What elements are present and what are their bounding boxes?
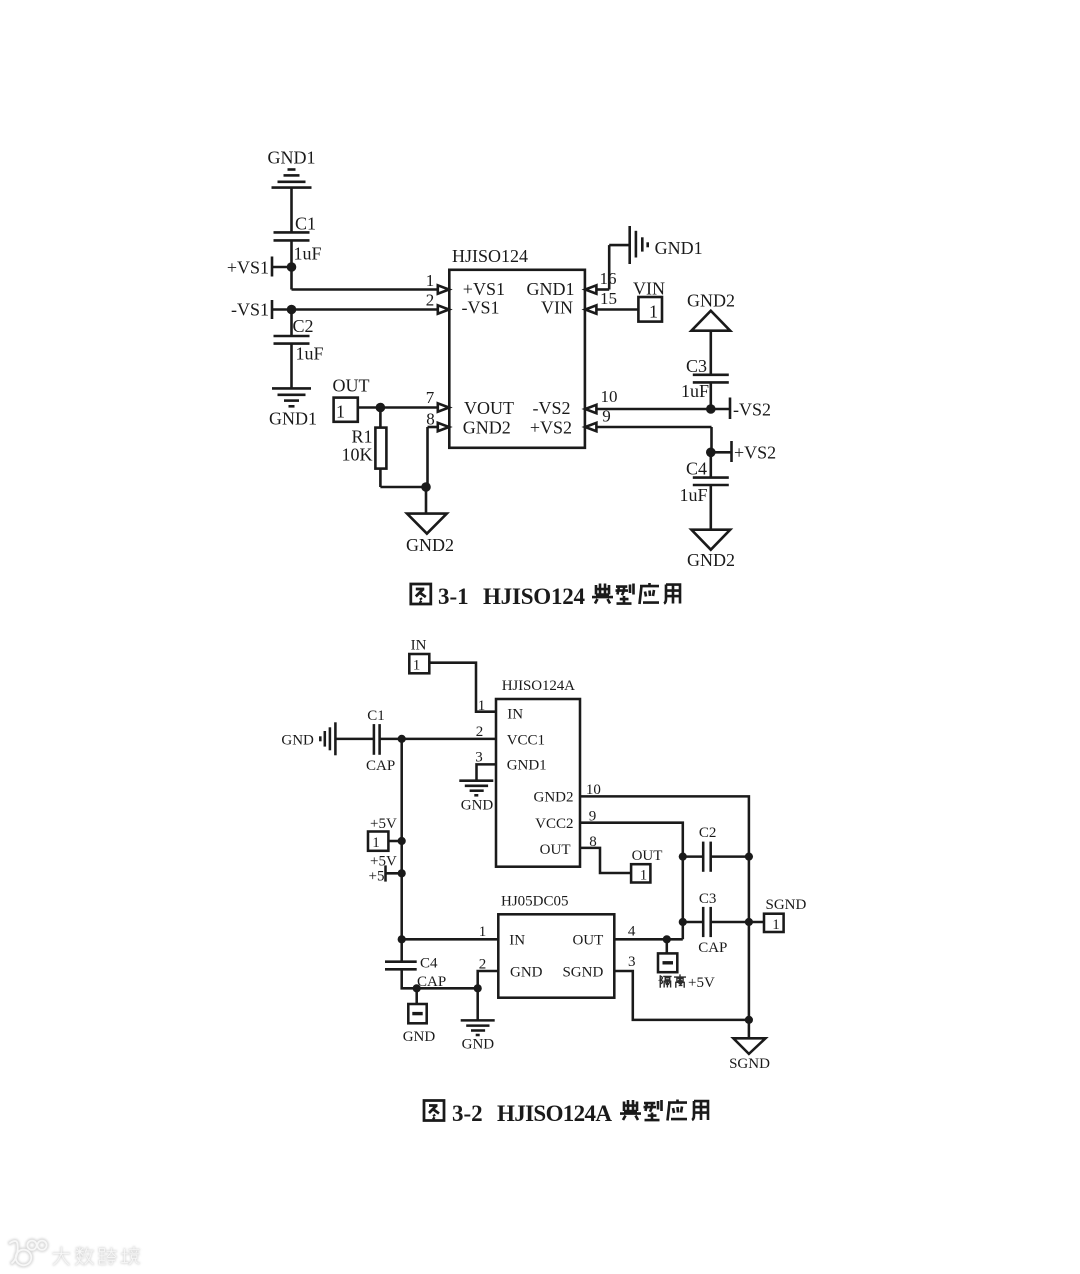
port GND box (dash) xyxy=(408,1004,426,1023)
wire to GND2 xyxy=(425,487,428,514)
svg-text:3: 3 xyxy=(475,750,483,766)
wire +VS2 node to C4 xyxy=(709,452,712,477)
svg-text:HJISO124: HJISO124 xyxy=(483,584,586,609)
svg-text:GND: GND xyxy=(462,1037,495,1053)
wire pin8 xyxy=(428,426,438,429)
svg-text:8: 8 xyxy=(426,410,435,429)
svg-text:1uF: 1uF xyxy=(294,244,322,264)
vertical C2 to C3 xyxy=(682,857,685,940)
svg-text:3: 3 xyxy=(628,954,636,970)
ground GND under C4 wire xyxy=(461,1020,495,1035)
capacitor C1 fig2 xyxy=(374,724,380,755)
svg-text:2: 2 xyxy=(426,291,435,310)
svg-text:IN: IN xyxy=(411,638,427,654)
pin 1 arrow xyxy=(438,285,449,293)
ground GND1 bottom-left xyxy=(272,388,311,406)
svg-text:4: 4 xyxy=(628,924,636,940)
svg-text:C1: C1 xyxy=(367,708,385,724)
wire pin1 xyxy=(292,288,438,291)
wire C3 row xyxy=(683,921,703,924)
port SGND box xyxy=(764,914,784,932)
junction pin4/iso5V xyxy=(663,935,671,943)
svg-text:1uF: 1uF xyxy=(680,485,708,505)
pin 15 arrow xyxy=(585,305,596,313)
watermark text 大数跨境 xyxy=(53,1247,138,1264)
node -VS2 tick xyxy=(729,398,732,420)
node +VS1 tick xyxy=(271,257,274,277)
svg-text:1: 1 xyxy=(372,835,380,851)
svg-text:HJISO124A: HJISO124A xyxy=(502,678,575,694)
svg-text:IN: IN xyxy=(509,933,525,949)
ground GND1 top xyxy=(272,170,312,188)
pin 9 arrow xyxy=(585,423,596,431)
svg-text:1: 1 xyxy=(478,698,486,714)
svg-text:1: 1 xyxy=(336,402,345,422)
svg-text:-VS1: -VS1 xyxy=(231,300,269,320)
wire pin3 IC3 to SGND rail xyxy=(614,971,749,1020)
node +5 tick xyxy=(384,865,387,881)
svg-text:+5V: +5V xyxy=(370,816,397,832)
junction rail/pin1 xyxy=(398,935,406,943)
caption figure 3-1 xyxy=(411,583,680,609)
svg-text:GND2: GND2 xyxy=(534,790,574,806)
svg-text:1: 1 xyxy=(640,868,648,884)
svg-text:+VS1: +VS1 xyxy=(227,258,269,278)
svg-text:9: 9 xyxy=(602,407,611,426)
svg-text:+VS1: +VS1 xyxy=(463,279,505,299)
svg-text:1uF: 1uF xyxy=(681,381,709,401)
junction -VS2 xyxy=(706,404,716,414)
svg-text:-VS2: -VS2 xyxy=(733,400,771,420)
svg-text:HJISO124: HJISO124 xyxy=(452,246,528,266)
svg-text:GND1: GND1 xyxy=(655,238,703,258)
IC U1 HJISO124 box xyxy=(449,270,585,448)
pin 8 arrow xyxy=(438,423,449,431)
svg-text:VIN: VIN xyxy=(633,278,665,298)
svg-text:+5: +5 xyxy=(369,869,385,885)
svg-text:VCC1: VCC1 xyxy=(507,733,545,749)
pin 16 arrow xyxy=(585,285,596,293)
wire pin4 xyxy=(614,938,683,941)
ground SGND triangle xyxy=(733,1038,765,1054)
svg-text:7: 7 xyxy=(426,388,435,407)
junction pin2 corner xyxy=(474,984,482,992)
svg-text:9: 9 xyxy=(589,809,597,825)
wire GND2 to C3 xyxy=(709,331,712,375)
ground GND sideways left xyxy=(320,722,335,755)
port OUT box xyxy=(334,398,358,422)
capacitor C3 fig2 xyxy=(703,907,711,937)
svg-text:GND: GND xyxy=(510,965,543,981)
junction C3 left xyxy=(679,918,687,926)
junction SGND rail xyxy=(745,1016,753,1024)
svg-text:R1: R1 xyxy=(351,427,372,447)
svg-text:-VS1: -VS1 xyxy=(462,297,500,317)
svg-text:1: 1 xyxy=(413,658,421,674)
svg-text:GND: GND xyxy=(403,1029,436,1045)
wire C1 to +VS1 node xyxy=(290,240,293,289)
label isolated +5V xyxy=(660,975,715,991)
svg-text:+VS2: +VS2 xyxy=(530,418,572,438)
wire C2 to ground xyxy=(290,344,293,389)
port isolated +5V box (dash) xyxy=(658,953,677,972)
wire pin16 to GND1 xyxy=(596,288,609,291)
svg-text:SGND: SGND xyxy=(729,1056,770,1072)
wire C3 to -VS2 node xyxy=(709,382,712,409)
IC U2 HJISO124A box xyxy=(496,699,580,867)
svg-text:GND1: GND1 xyxy=(268,148,316,168)
svg-text:C4: C4 xyxy=(686,459,707,479)
svg-text:SGND: SGND xyxy=(766,897,807,913)
svg-text:CAP: CAP xyxy=(366,758,395,774)
port OUT box fig2 xyxy=(631,864,650,882)
svg-text:+VS2: +VS2 xyxy=(734,443,776,463)
svg-text:C2: C2 xyxy=(699,825,717,841)
svg-text:-VS2: -VS2 xyxy=(532,398,570,418)
svg-text:2: 2 xyxy=(479,957,487,973)
svg-text:GND: GND xyxy=(461,798,494,814)
resistor R1 xyxy=(379,408,382,428)
junction -VS1 xyxy=(287,305,297,315)
junction +5 xyxy=(398,869,406,877)
capacitor C4 fig2 xyxy=(385,962,417,970)
svg-text:VIN: VIN xyxy=(541,297,573,317)
svg-text:GND1: GND1 xyxy=(527,279,575,299)
junction +VS2 xyxy=(706,448,716,458)
svg-text:C3: C3 xyxy=(686,356,707,376)
svg-text:CAP: CAP xyxy=(417,974,446,990)
svg-text:16: 16 xyxy=(600,269,617,288)
svg-text:OUT: OUT xyxy=(540,842,571,858)
svg-text:2: 2 xyxy=(476,724,484,740)
caption figure 3-2 xyxy=(424,1100,708,1127)
port IN box xyxy=(409,654,429,673)
svg-text:GND: GND xyxy=(281,733,314,749)
svg-text:C2: C2 xyxy=(293,316,314,336)
junction GND port xyxy=(413,984,421,992)
IC U3 HJ05DC05 box xyxy=(498,914,614,997)
wire C1 to pin2 xyxy=(380,738,496,741)
node -VS1 tick xyxy=(271,300,274,319)
junction C2 left xyxy=(679,853,687,861)
junction dots figure 1 xyxy=(287,262,716,492)
svg-text:+5V: +5V xyxy=(370,854,397,870)
svg-text:10K: 10K xyxy=(342,445,373,465)
wire junction to ground xyxy=(476,988,479,1020)
svg-text:1: 1 xyxy=(649,302,658,322)
svg-text:OUT: OUT xyxy=(572,933,603,949)
svg-text:8: 8 xyxy=(589,834,597,850)
watermark logo bottom-left xyxy=(10,1241,139,1266)
node +VS2 tick xyxy=(730,441,733,462)
wire IN to pin1 xyxy=(429,663,496,712)
junction OUT xyxy=(376,403,386,413)
junction +5V xyxy=(398,837,406,845)
pin 7 arrow xyxy=(438,403,449,411)
ground GND2 triangle fig1 bottom xyxy=(407,514,447,534)
port +5V box xyxy=(368,832,388,851)
svg-text:GND1: GND1 xyxy=(269,409,317,429)
ground GND2 triangle bottom-right xyxy=(691,530,730,550)
svg-text:C4: C4 xyxy=(420,956,438,972)
junction R1/pin8 xyxy=(421,482,431,492)
wire pin9 / +VS2 xyxy=(596,426,711,429)
junction dots figure 2 xyxy=(398,735,753,1024)
svg-text:OUT: OUT xyxy=(333,376,370,396)
stub to isolated +5V port xyxy=(666,939,669,953)
wire R1 bottom xyxy=(379,469,382,487)
labels figure 1 xyxy=(227,148,776,571)
wire pin1 row IC3 xyxy=(402,938,499,941)
capacitor C2 xyxy=(290,310,293,337)
svg-text:HJ05DC05: HJ05DC05 xyxy=(501,894,569,910)
svg-text:VCC2: VCC2 xyxy=(535,816,573,832)
capacitor C1 xyxy=(274,232,310,240)
svg-text:C1: C1 xyxy=(295,214,316,234)
ground GND under pin3 xyxy=(459,781,493,796)
labels figure 2 xyxy=(281,638,806,1073)
capacitor C4 xyxy=(693,478,729,485)
svg-text:10: 10 xyxy=(601,387,618,406)
svg-text:+5V: +5V xyxy=(688,975,715,991)
svg-text:3-2: 3-2 xyxy=(452,1101,483,1126)
wire pin8 to OUT xyxy=(580,848,631,873)
wire pin15 to VIN xyxy=(596,308,638,311)
junction +VS1 xyxy=(287,262,297,272)
svg-text:CAP: CAP xyxy=(698,940,727,956)
wire C4 bottom to pin2 vertical xyxy=(402,969,478,988)
junction C3 right xyxy=(745,918,753,926)
wire pin9 xyxy=(580,823,683,857)
pin 2 arrow xyxy=(438,305,449,313)
svg-text:GND2: GND2 xyxy=(463,418,511,438)
wire +5V box to rail xyxy=(388,840,401,843)
ground GND2 triangle top-right (up) xyxy=(691,311,730,331)
svg-text:1: 1 xyxy=(426,271,435,290)
svg-text:3-1: 3-1 xyxy=(438,584,469,609)
svg-text:GND2: GND2 xyxy=(687,550,735,570)
svg-text:10: 10 xyxy=(586,782,601,798)
svg-text:GND2: GND2 xyxy=(406,535,454,555)
wire pin3 to GND xyxy=(477,764,497,780)
pin 10 arrow xyxy=(585,405,596,413)
svg-text:1uF: 1uF xyxy=(296,344,324,364)
wire OUT to pin7 xyxy=(358,406,438,409)
svg-text:1: 1 xyxy=(772,917,780,933)
wire pin10 xyxy=(580,796,749,1038)
junction C2 right xyxy=(745,853,753,861)
wire GND to C1 xyxy=(335,738,374,741)
wire C4 to GND2 xyxy=(709,485,712,530)
stub to GND port box xyxy=(415,988,418,1004)
capacitor C2 fig2 xyxy=(703,842,711,872)
left rail fig2 xyxy=(400,739,403,962)
wire GND1 to C1 xyxy=(290,188,293,233)
capacitor C3 xyxy=(693,375,729,383)
svg-text:VOUT: VOUT xyxy=(464,398,514,418)
svg-text:15: 15 xyxy=(600,289,617,308)
port VIN box xyxy=(638,297,662,322)
svg-text:HJISO124A: HJISO124A xyxy=(497,1101,612,1126)
svg-text:GND2: GND2 xyxy=(687,291,735,311)
svg-text:OUT: OUT xyxy=(632,848,663,864)
wire C2 row xyxy=(683,855,703,858)
svg-text:1: 1 xyxy=(479,924,487,940)
svg-text:SGND: SGND xyxy=(562,965,603,981)
svg-text:C3: C3 xyxy=(699,891,717,907)
wire pin2 / -VS1 xyxy=(272,308,438,311)
svg-text:GND1: GND1 xyxy=(507,758,547,774)
wire pin10 / -VS2 xyxy=(596,408,730,411)
wire pin2 vertical xyxy=(478,971,499,988)
junction C1/pin2 xyxy=(398,735,406,743)
svg-text:IN: IN xyxy=(507,707,523,723)
ground GND1 sideways top-right xyxy=(630,226,648,264)
